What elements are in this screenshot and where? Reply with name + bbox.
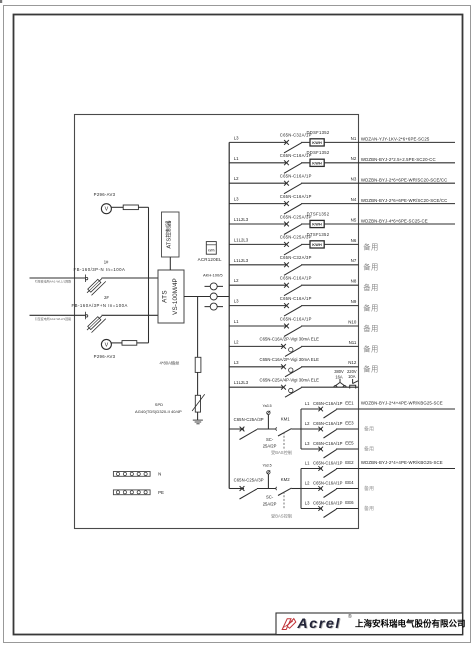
svg-text:L2: L2 bbox=[305, 421, 310, 426]
svg-text:N8: N8 bbox=[351, 279, 357, 284]
svg-text:V: V bbox=[105, 207, 109, 213]
svg-text:EE2: EE2 bbox=[345, 460, 354, 465]
svg-text:N3: N3 bbox=[351, 177, 357, 182]
svg-text:P296-AV3: P296-AV3 bbox=[94, 354, 116, 359]
svg-text:引至变电所AA2-WL2/1回路: 引至变电所AA2-WL2/1回路 bbox=[35, 316, 71, 321]
svg-text:EE6: EE6 bbox=[345, 500, 354, 505]
svg-text:WDZBN-BYJ-2*6+6PE-WR/SC20-SCE/: WDZBN-BYJ-2*6+6PE-WR/SC20-SCE/CC bbox=[361, 178, 448, 183]
svg-text:DDSF1352: DDSF1352 bbox=[306, 130, 329, 135]
svg-text:C65N-C16A/1P: C65N-C16A/1P bbox=[313, 441, 343, 446]
svg-text:N7: N7 bbox=[351, 258, 357, 263]
svg-text:C65N-C25A/4P-Vigi 30mA ELE: C65N-C25A/4P-Vigi 30mA ELE bbox=[260, 378, 320, 383]
svg-text:kWh: kWh bbox=[208, 249, 215, 253]
svg-text:C65N-C16A/1P: C65N-C16A/1P bbox=[313, 421, 343, 426]
svg-text:VS-100M/4P: VS-100M/4P bbox=[172, 278, 179, 315]
svg-text:备用: 备用 bbox=[363, 344, 378, 353]
svg-text:C65N-C16A/1P: C65N-C16A/1P bbox=[280, 194, 312, 199]
svg-text:WDZBN-BYJ-2*4+4PE-WR/KBG25-SCE: WDZBN-BYJ-2*4+4PE-WR/KBG25-SCE bbox=[361, 401, 443, 406]
svg-text:®: ® bbox=[348, 613, 352, 620]
svg-text:L1: L1 bbox=[305, 461, 310, 466]
svg-text:L3: L3 bbox=[234, 197, 239, 202]
svg-text:N9: N9 bbox=[351, 299, 357, 304]
svg-text:PE: PE bbox=[158, 490, 164, 495]
svg-text:25A/2P: 25A/2P bbox=[263, 502, 277, 507]
svg-text:C65N-C32A/3P: C65N-C32A/3P bbox=[280, 255, 312, 260]
svg-text:KWH: KWH bbox=[312, 162, 322, 166]
svg-text:4*80A熔丝: 4*80A熔丝 bbox=[160, 359, 180, 366]
svg-text:WDZBN-BYJ-2*2.5+2.5PE-SC20-CC: WDZBN-BYJ-2*2.5+2.5PE-SC20-CC bbox=[361, 157, 436, 162]
svg-text:WDZBN-BYJ-2*4+4PE-WR/KBG25-SCE: WDZBN-BYJ-2*4+4PE-WR/KBG25-SCE bbox=[361, 460, 443, 465]
svg-text:C65N-C16A/1P: C65N-C16A/1P bbox=[280, 174, 312, 179]
svg-text:ACR120EL: ACR120EL bbox=[198, 257, 222, 262]
svg-text:L1L2L3: L1L2L3 bbox=[234, 217, 249, 222]
svg-text:备用: 备用 bbox=[363, 242, 378, 251]
svg-text:受BAS控制: 受BAS控制 bbox=[271, 449, 292, 456]
svg-text:SPD: SPD bbox=[155, 402, 163, 407]
svg-text:L2: L2 bbox=[234, 176, 239, 181]
svg-text:备用: 备用 bbox=[364, 505, 374, 512]
svg-text:DDSF1352: DDSF1352 bbox=[306, 150, 329, 155]
svg-text:L3: L3 bbox=[305, 441, 310, 446]
svg-text:备用: 备用 bbox=[363, 365, 378, 374]
svg-text:16A: 16A bbox=[335, 374, 343, 379]
svg-text:L3: L3 bbox=[234, 360, 239, 365]
svg-text:受BAS控制: 受BAS控制 bbox=[271, 513, 292, 520]
svg-text:备用: 备用 bbox=[364, 485, 374, 492]
svg-text:EE1: EE1 bbox=[345, 401, 354, 406]
svg-text:备用: 备用 bbox=[364, 446, 374, 453]
svg-text:N6: N6 bbox=[351, 238, 357, 243]
svg-text:Acrel: Acrel bbox=[296, 616, 341, 632]
svg-text:L2: L2 bbox=[305, 481, 310, 486]
svg-text:N5: N5 bbox=[351, 217, 357, 222]
svg-text:N12: N12 bbox=[348, 360, 357, 365]
svg-text:EE5: EE5 bbox=[345, 441, 354, 446]
svg-text:C65N-C16A/1P: C65N-C16A/1P bbox=[313, 500, 343, 505]
svg-text:L3: L3 bbox=[305, 501, 310, 506]
svg-text:SC-: SC- bbox=[266, 495, 274, 500]
svg-text:AG40(TDS)D320-II 40/4P: AG40(TDS)D320-II 40/4P bbox=[135, 409, 182, 414]
svg-text:Ya3.5: Ya3.5 bbox=[263, 464, 272, 468]
svg-text:C65N-C16A/1P: C65N-C16A/1P bbox=[280, 296, 312, 301]
svg-text:P296-AV3: P296-AV3 bbox=[94, 192, 116, 197]
svg-text:C65N-C16A/1P: C65N-C16A/1P bbox=[313, 460, 343, 465]
svg-text:WDZBN-BYJ-2*6+6PE-WR/SC20-SCE/: WDZBN-BYJ-2*6+6PE-WR/SC20-SCE/CC bbox=[361, 198, 448, 203]
svg-text:N1: N1 bbox=[351, 136, 357, 141]
svg-text:V: V bbox=[105, 342, 109, 348]
svg-text:KM2: KM2 bbox=[281, 477, 290, 482]
svg-text:ATS: ATS bbox=[161, 290, 168, 303]
svg-text:KWH: KWH bbox=[312, 223, 322, 227]
svg-text:WDZAN-YJY-1KV-2*6+6PE-SC25: WDZAN-YJY-1KV-2*6+6PE-SC25 bbox=[361, 137, 430, 142]
svg-text:L1: L1 bbox=[234, 319, 239, 324]
svg-text:备用: 备用 bbox=[363, 324, 378, 333]
svg-text:10A: 10A bbox=[348, 374, 356, 379]
svg-text:FB-160/3P-N In=100A: FB-160/3P-N In=100A bbox=[74, 267, 126, 272]
svg-text:Ya3.5: Ya3.5 bbox=[263, 404, 272, 408]
svg-text:KM1: KM1 bbox=[281, 417, 290, 422]
svg-text:L1L2L3: L1L2L3 bbox=[234, 380, 249, 385]
svg-text:C65N-C16A/1P: C65N-C16A/1P bbox=[280, 276, 312, 281]
svg-text:C65N-C16A/1P: C65N-C16A/1P bbox=[280, 316, 312, 321]
svg-text:备用: 备用 bbox=[363, 263, 378, 272]
svg-text:DTSF1352: DTSF1352 bbox=[307, 211, 330, 216]
svg-text:N11: N11 bbox=[349, 340, 357, 345]
svg-text:C65N-C16A/1P: C65N-C16A/1P bbox=[313, 480, 343, 485]
svg-text:L3: L3 bbox=[234, 299, 239, 304]
svg-text:AKH-100/5: AKH-100/5 bbox=[203, 273, 223, 278]
svg-text:WDZBN-BYJ-4*6+6PE-SC25-CE: WDZBN-BYJ-4*6+6PE-SC25-CE bbox=[361, 218, 428, 223]
svg-text:L1L2L3: L1L2L3 bbox=[234, 237, 249, 242]
svg-text:N2: N2 bbox=[351, 156, 357, 161]
svg-text:C65N-C25A/3P: C65N-C25A/3P bbox=[234, 478, 264, 483]
svg-text:N10: N10 bbox=[348, 319, 357, 324]
svg-text:备用: 备用 bbox=[363, 283, 378, 292]
svg-text:C65N-C25A/3P: C65N-C25A/3P bbox=[234, 417, 264, 422]
svg-text:C65N-C16A/1P: C65N-C16A/1P bbox=[313, 401, 343, 406]
svg-text:引至变电所AA1-WL1/1回路: 引至变电所AA1-WL1/1回路 bbox=[35, 279, 71, 284]
svg-text:KWH: KWH bbox=[312, 141, 322, 145]
svg-text:1#: 1# bbox=[104, 260, 109, 265]
svg-text:25A/2P: 25A/2P bbox=[263, 444, 277, 449]
svg-text:L2: L2 bbox=[234, 278, 239, 283]
svg-text:EE3: EE3 bbox=[345, 421, 354, 426]
svg-text:2#: 2# bbox=[104, 295, 109, 300]
svg-text:L1: L1 bbox=[234, 156, 239, 161]
svg-text:备用: 备用 bbox=[364, 426, 374, 433]
svg-text:EE4: EE4 bbox=[345, 480, 354, 485]
svg-text:上海安科瑞电气股份有限公司: 上海安科瑞电气股份有限公司 bbox=[355, 618, 466, 628]
svg-text:KWH: KWH bbox=[312, 243, 322, 247]
svg-text:DTSF1352: DTSF1352 bbox=[307, 232, 330, 237]
svg-text:备用: 备用 bbox=[363, 304, 378, 313]
svg-text:N4: N4 bbox=[351, 197, 357, 202]
svg-text:N: N bbox=[158, 472, 161, 477]
svg-text:C65N-C16A/2P-Vigi 30mA ELE: C65N-C16A/2P-Vigi 30mA ELE bbox=[260, 357, 320, 362]
svg-text:L3: L3 bbox=[234, 135, 239, 140]
svg-text:ATS控制器: ATS控制器 bbox=[164, 220, 172, 248]
svg-text:FB-160A/3P+N In=100A: FB-160A/3P+N In=100A bbox=[72, 303, 128, 308]
svg-text:L2: L2 bbox=[234, 339, 239, 344]
svg-text:C65N-C16A/2P-Vigi 30mA ELE: C65N-C16A/2P-Vigi 30mA ELE bbox=[260, 337, 320, 342]
svg-text:L1: L1 bbox=[305, 401, 310, 406]
svg-text:SC-: SC- bbox=[266, 437, 274, 442]
svg-text:L1L2L3: L1L2L3 bbox=[234, 258, 249, 263]
